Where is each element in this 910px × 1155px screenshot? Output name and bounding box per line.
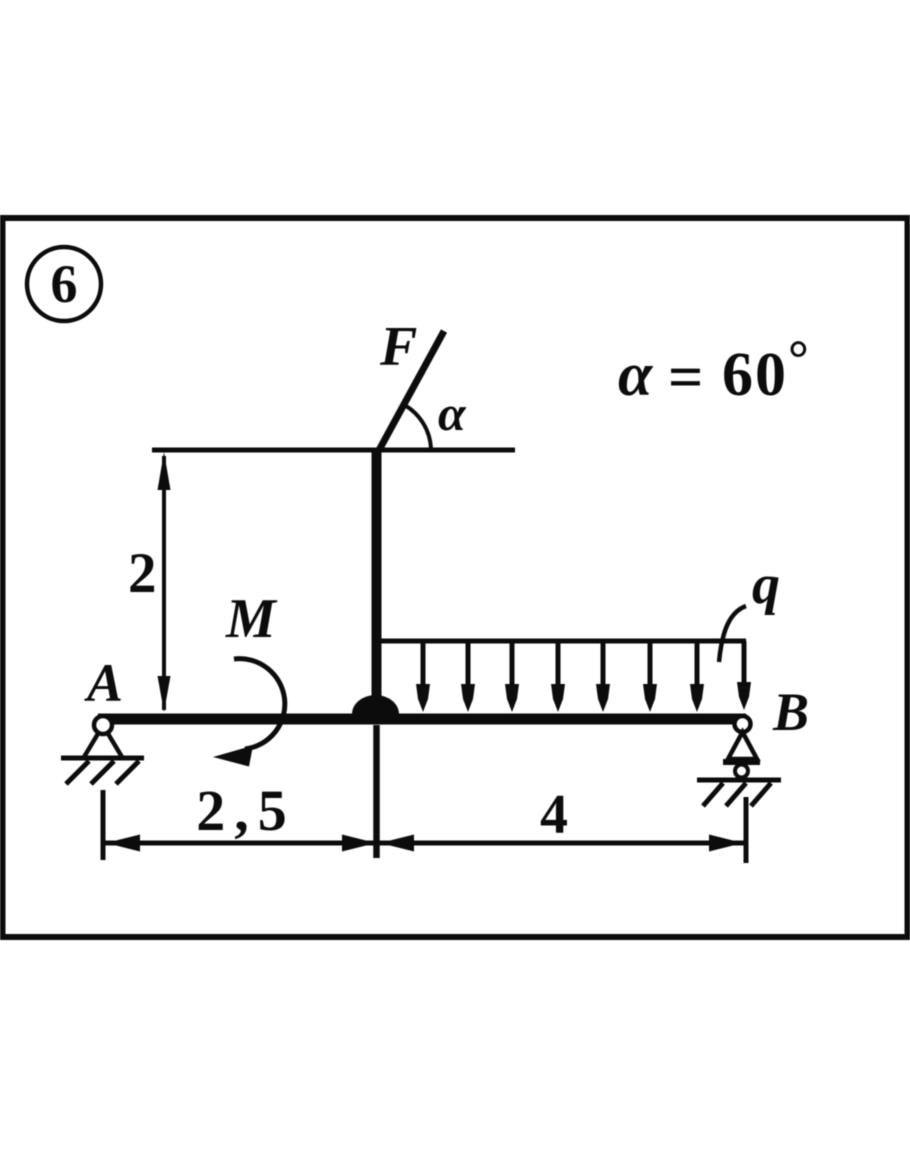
svg-text:B: B	[772, 682, 809, 742]
force F line	[378, 331, 444, 452]
svg-text:α: α	[438, 385, 467, 441]
column (vertical post)	[372, 450, 382, 714]
svg-text:2,5: 2,5	[196, 778, 296, 843]
support B hatching	[703, 783, 771, 806]
dimension 2 arrow up	[158, 452, 171, 490]
support A pin circle	[94, 716, 112, 734]
svg-text:A: A	[84, 653, 123, 713]
svg-text:q: q	[752, 554, 780, 616]
svg-text:6: 6	[51, 254, 78, 314]
dimension 2 line	[162, 456, 166, 710]
angle arc	[404, 405, 431, 450]
moment arc	[234, 659, 285, 749]
q leader line	[719, 606, 746, 662]
border frame	[3, 218, 908, 937]
svg-text:α=60°: α=60°	[618, 331, 809, 412]
dimension 2 arrow down	[158, 676, 171, 712]
joint fillet at post base	[352, 695, 399, 714]
support B roller triangle	[728, 732, 757, 759]
distributed load top line	[378, 639, 746, 644]
support A hatching	[66, 761, 139, 784]
support B ground line	[697, 778, 781, 783]
distributed load arrows	[416, 641, 751, 712]
dim arrow left	[106, 835, 140, 852]
svg-text:M: M	[225, 588, 278, 650]
support B pin circle	[735, 716, 751, 732]
support A ground line	[61, 756, 144, 761]
support B roller circle	[735, 765, 748, 778]
support A triangle legs	[84, 732, 122, 757]
dimension line	[103, 841, 746, 846]
support B base line	[723, 759, 760, 765]
variant number circle 6	[27, 247, 101, 321]
beam AB	[98, 714, 746, 725]
dim arrow right of 2,5	[342, 835, 376, 852]
extension line at A	[101, 790, 106, 860]
moment arrowhead	[213, 746, 253, 767]
svg-text:2: 2	[128, 542, 157, 605]
svg-text:F: F	[379, 316, 417, 378]
dim arrow right end	[709, 835, 743, 852]
top horizontal reference line	[152, 448, 515, 453]
extension line at post	[373, 725, 380, 858]
dim arrow left of 4	[380, 835, 414, 852]
svg-text:4: 4	[540, 784, 568, 846]
extension line at B	[744, 797, 749, 863]
